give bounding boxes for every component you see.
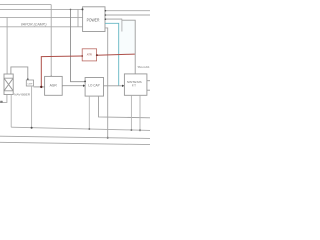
wire LO CAP output [103,85,122,87]
node junction SINTESIS pin1 on W1 [130,129,132,131]
svg-text:CMP: CMP [27,83,32,85]
box ATR (red) [82,49,96,61]
wire V3 [77,9,79,26]
wire small box bottom to bus [31,86,33,128]
node pin left [82,8,84,10]
box POWER [83,7,105,32]
svg-text:ATR: ATR [87,53,93,57]
wire L3 [0,16,82,18]
svg-text:VAPOR (CAMP.): VAPOR (CAMP.) [21,22,47,26]
wire V2 to LO CAP [71,9,85,81]
wire red path left [41,56,82,87]
wire L4 [0,26,82,28]
wire SINTESIS right pin1 [147,80,150,82]
node LO CAP input pin [84,81,86,83]
wire small box to AMP [34,86,45,88]
svg-text:POWER: POWER [87,18,100,23]
node junction SINTESIS pin2 on W1 [139,129,141,131]
box AMP [45,76,63,95]
node ATR output junction [96,54,98,56]
wire bus A [0,136,150,138]
wire LO CAP bottom pin2 [99,96,151,118]
node small box top junction [27,78,29,80]
wire red path right [97,54,135,55]
box LO CAP [85,78,103,97]
wire mixer bottom-right to bus [10,95,12,128]
wire LO CAP bottom pin1 [88,96,90,129]
node junction [70,9,72,11]
wire AMP output [63,85,84,87]
wire mixer feed [6,17,8,74]
node red dot [40,86,42,88]
wire POWER teal pin [105,23,119,86]
small box CMP [26,80,33,86]
wire stub left edge of tint box [121,20,123,32]
node POWER pin3 [105,18,107,20]
node arrow into LO CAP [83,85,86,87]
label tiny left [0,101,3,103]
svg-text:LO CAP: LO CAP [88,83,100,87]
wire L2 [0,8,82,10]
svg-text:F.T: F.T [132,84,136,88]
wire bottom W1 [11,127,150,130]
node junction pin1 on W1 [88,128,90,130]
wire SINTESIS bottom pin2 [139,95,141,130]
node AMP input pin [44,86,45,87]
box SINTESIS [124,74,146,95]
node POWER pin2 [105,14,107,16]
node LO CAP output pin [103,85,104,86]
wire mixer top-right to small box [11,67,28,80]
wire POWER pin2 [105,14,150,16]
wire mixer bottom-left to edge [0,95,7,103]
svg-text:NAV-BBER: NAV-BBER [14,93,30,97]
light tint area top right [119,20,135,55]
wire POWER pin3 to SINTESIS top [105,18,122,20]
mixer box [4,74,13,95]
node ATR input pin [81,55,83,57]
svg-text:AGR: AGR [50,83,57,87]
node POWER pin1 [105,10,107,12]
wire POWER pin1 [105,10,150,12]
node junction small box pin on W1 [31,127,33,129]
wire SINTESIS right pin2 [147,89,150,91]
wire SINTESIS bottom pin1 [130,95,132,130]
wire bus B [0,142,150,144]
node junction POWER pin5 on bus A [107,137,109,139]
wire V1 to AMP [50,5,52,77]
node AMP output pin [62,85,63,86]
wire L1 [0,4,51,6]
node junction V1 at AMP top [50,76,52,78]
wire POWER pin5 down [105,28,108,138]
node arrow into SINTESIS [122,85,125,87]
svg-text:TAG-GAS: TAG-GAS [137,65,149,69]
